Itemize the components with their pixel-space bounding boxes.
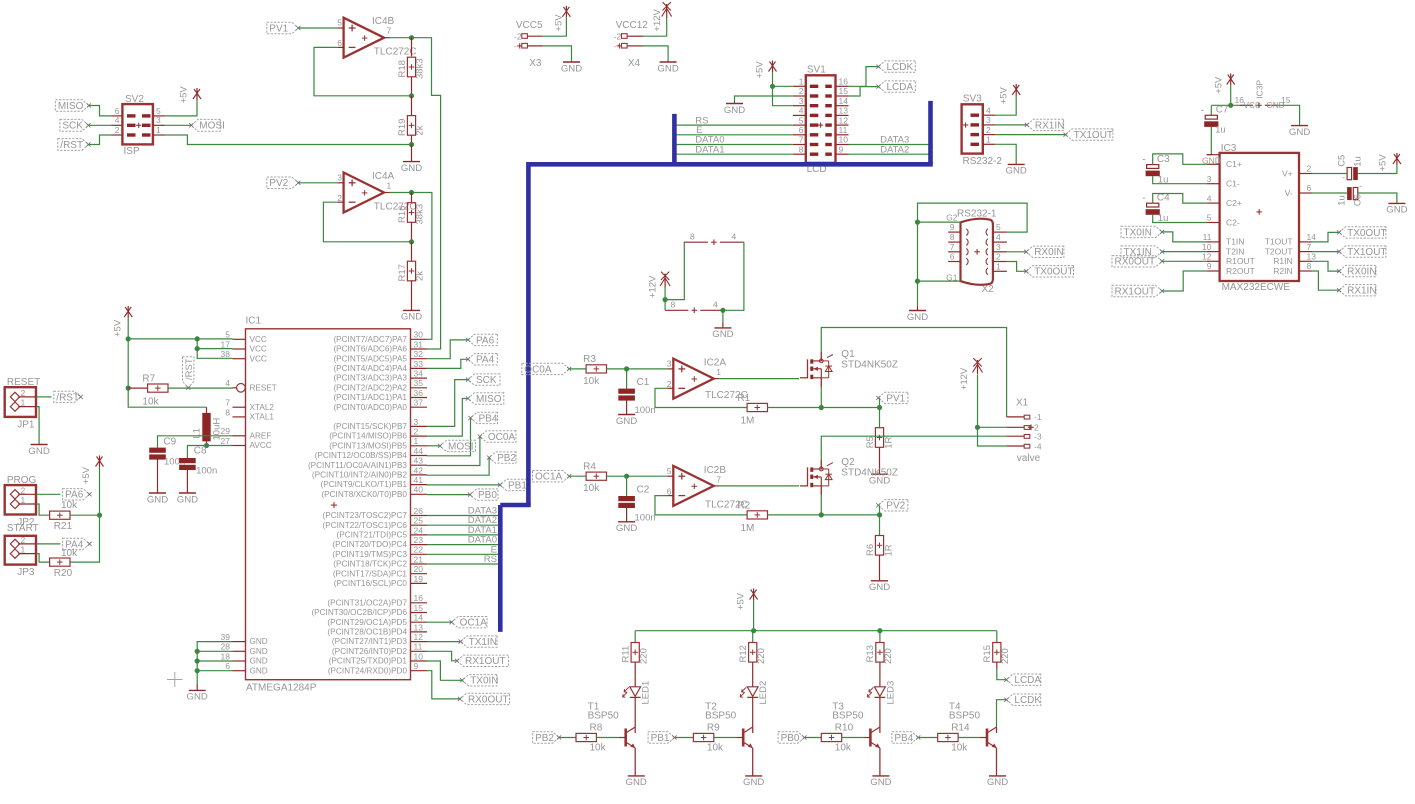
wire PB4 to R14 [918, 737, 938, 739]
svg-text:PB0: PB0 [781, 733, 800, 744]
connector SV1 LCD [793, 64, 849, 175]
net flag PA4 [466, 354, 497, 366]
svg-text:X4: X4 [628, 58, 641, 69]
wire C3 to C1- [1153, 176, 1207, 184]
svg-text:22: 22 [414, 545, 424, 555]
wire SV2 pin5 to +5V [165, 100, 198, 116]
wire JP3 pin1 to R20 [36, 554, 50, 563]
svg-text:2: 2 [986, 125, 991, 135]
svg-text:2: 2 [21, 535, 26, 545]
svg-text:(PCINT12/OC0B/SS)PB4: (PCINT12/OC0B/SS)PB4 [315, 451, 408, 460]
supply +5V at SV3 [999, 84, 1021, 104]
ground at C6 [1386, 203, 1407, 215]
supply +5V at C5 [1378, 153, 1401, 172]
svg-text:17: 17 [221, 339, 231, 349]
wire OC1A to R4 [569, 475, 586, 477]
wire R2 to PV2 node [768, 512, 880, 517]
net flag PB2 [487, 452, 516, 464]
svg-text:JP3: JP3 [17, 567, 35, 578]
wire IC2A feedback to R1 [655, 388, 747, 407]
svg-text:RX0OUT: RX0OUT [1115, 257, 1156, 268]
net flag RX1IN [1337, 285, 1377, 297]
wire R3 to IC2A +in [607, 366, 668, 371]
svg-text:-: - [1201, 105, 1204, 116]
wire +5V to C7 and IC3P VCC [1211, 85, 1240, 115]
net flag /RST at JP1 [54, 391, 83, 403]
header JP2 PROG [5, 475, 37, 528]
svg-text:5: 5 [799, 115, 804, 125]
net flag PB1 [648, 732, 677, 744]
wire +5V to L1 [128, 388, 206, 407]
svg-text:PA4: PA4 [476, 355, 495, 366]
svg-text:RX1OUT: RX1OUT [1115, 286, 1156, 297]
transistor T1 BSP50 [588, 701, 636, 748]
svg-text:12: 12 [839, 115, 849, 125]
svg-text:VCC: VCC [250, 345, 267, 354]
svg-text:GND: GND [250, 647, 268, 656]
svg-text:14: 14 [1307, 232, 1317, 242]
svg-text:5: 5 [1207, 213, 1212, 223]
wire RX1OUT to R2OUT [1162, 271, 1207, 291]
svg-text:(PCINT13/MOSI)PB5: (PCINT13/MOSI)PB5 [329, 441, 407, 450]
net flag MISO [466, 393, 504, 405]
svg-text:GND: GND [177, 494, 198, 505]
net flag OC1A input [533, 471, 572, 483]
net flag TX1OUT [1064, 129, 1114, 141]
supply +5V at SV1 [755, 61, 777, 79]
svg-text:40: 40 [414, 485, 424, 495]
svg-text:(PCINT29/OC1A)PD5: (PCINT29/OC1A)PD5 [327, 618, 407, 627]
ground below T1 [626, 776, 647, 788]
svg-text:+5V: +5V [1213, 76, 1224, 94]
wire X2 pin2 to TX0OUT flag [1007, 262, 1026, 272]
node below R19 [409, 135, 414, 147]
wire PB7 to SCK flag [427, 380, 468, 427]
net flag PA4 at JP3 [63, 538, 92, 550]
svg-text:R11: R11 [621, 646, 632, 663]
resistor R20 [50, 548, 79, 579]
svg-text:VCC: VCC [250, 335, 267, 344]
svg-text:28: 28 [221, 642, 231, 652]
svg-text:TX0IN: TX0IN [470, 676, 498, 687]
svg-text:MISO: MISO [58, 101, 84, 112]
svg-text:31: 31 [414, 339, 424, 349]
svg-text:SCK: SCK [62, 121, 83, 132]
svg-text:4: 4 [1207, 193, 1212, 203]
svg-text:C5: C5 [1337, 155, 1348, 167]
svg-text:(PCINT2/ADC2)PA2: (PCINT2/ADC2)PA2 [333, 383, 407, 392]
svg-text:4: 4 [996, 232, 1001, 242]
svg-text:GND: GND [1289, 127, 1310, 138]
svg-text:39: 39 [221, 632, 231, 642]
wire V- to C6 [1312, 192, 1347, 194]
net flag TX1IN [1121, 246, 1164, 258]
wire DATA0 to bus [427, 535, 500, 546]
svg-text:GND: GND [869, 582, 890, 593]
svg-text:7: 7 [387, 26, 392, 36]
ground below IC1 [187, 684, 208, 703]
svg-text:C3: C3 [1157, 154, 1170, 165]
wire PV1 node to flag and R5 [877, 398, 882, 428]
svg-text:T1OUT: T1OUT [1265, 237, 1293, 247]
svg-text:RX0IN: RX0IN [1034, 247, 1063, 258]
svg-text:(PCINT7/ADC7)PA7: (PCINT7/ADC7)PA7 [333, 335, 407, 344]
wire LCDK to T4 collector [997, 700, 1007, 728]
svg-text:36: 36 [414, 388, 424, 398]
origin crosshair [167, 672, 183, 687]
wire C7 to IC3 GND pin [1207, 127, 1212, 155]
resistor R12 [738, 631, 767, 687]
svg-text:18: 18 [221, 651, 231, 661]
resistor R8 [576, 722, 607, 753]
wire /RST to SV2 pin 2 [88, 135, 111, 145]
svg-text:(PCINT26/INT0)PD2: (PCINT26/INT0)PD2 [332, 647, 408, 656]
wire T4 emitter to ground [996, 748, 998, 776]
svg-text:10k: 10k [590, 743, 607, 754]
svg-text:1: 1 [21, 495, 26, 505]
svg-text:3: 3 [667, 359, 672, 369]
wire IC1 GND pins to ground [195, 642, 233, 684]
svg-text:PB1: PB1 [651, 733, 670, 744]
connector SV3 RS232-2 [962, 94, 1003, 168]
svg-text:5: 5 [337, 18, 342, 28]
wire JP2 pin2 to PA6 flag [36, 493, 60, 495]
wire DATA1 to bus [427, 525, 500, 536]
svg-text:10k: 10k [583, 376, 600, 387]
svg-text:/RST: /RST [56, 392, 79, 403]
svg-text:OC0A: OC0A [488, 432, 516, 443]
resistor R9 [693, 722, 724, 753]
connector SV2 ISP [112, 94, 165, 157]
wire OC0A to R3 [569, 368, 586, 370]
wire +12V to X1 pin2 [975, 375, 1007, 447]
svg-text:GND: GND [561, 63, 582, 74]
svg-text:2: 2 [799, 86, 804, 96]
svg-text:2: 2 [115, 125, 120, 135]
svg-text:9: 9 [414, 661, 419, 671]
svg-text:LCDA: LCDA [1014, 675, 1041, 686]
svg-text:2: 2 [414, 427, 419, 437]
svg-text:11: 11 [414, 642, 423, 652]
svg-text:10k: 10k [142, 397, 159, 408]
op-amp IC4B [337, 16, 416, 58]
svg-text:SV3: SV3 [963, 94, 982, 105]
header JP3 START [5, 523, 39, 578]
wire Q2 drain to X1 pin3 [821, 436, 1006, 469]
svg-text:+5V: +5V [1378, 154, 1389, 172]
net flag TX1OUT [1337, 246, 1387, 258]
resistor R21 [50, 500, 79, 532]
svg-text:V+: V+ [1282, 168, 1293, 178]
svg-text:R19: R19 [397, 119, 408, 136]
svg-text:(PCINT22/TOSC1)PC6: (PCINT22/TOSC1)PC6 [323, 521, 408, 530]
svg-text:4: 4 [713, 300, 718, 310]
svg-text:BSP50: BSP50 [588, 711, 620, 722]
svg-text:5: 5 [996, 222, 1001, 232]
LED LED2 [740, 681, 769, 727]
svg-text:GND: GND [626, 777, 647, 788]
wire PB0 to flag [427, 494, 470, 496]
wire R1IN to RX0IN flag [1312, 261, 1339, 271]
svg-text:3: 3 [1207, 174, 1212, 184]
svg-text:AVCC: AVCC [250, 441, 272, 450]
svg-text:R5: R5 [865, 436, 876, 448]
svg-text:XTAL1: XTAL1 [250, 413, 275, 422]
svg-text:220: 220 [756, 648, 767, 664]
wire T3 emitter to ground [879, 748, 881, 776]
wire PD3 to TX1IN flag [427, 641, 461, 643]
svg-text:9: 9 [950, 222, 955, 232]
ground below T2 [743, 776, 764, 788]
svg-text:GND: GND [1386, 205, 1407, 216]
svg-text:(PCINT0/ADC0)PA0: (PCINT0/ADC0)PA0 [333, 403, 407, 412]
svg-text:(PCINT10/INT2/AIN0)PB2: (PCINT10/INT2/AIN0)PB2 [312, 471, 408, 480]
svg-text:R4: R4 [583, 462, 596, 473]
svg-text:-1: -1 [1034, 412, 1042, 422]
svg-text:100n: 100n [635, 405, 656, 416]
svg-text:TX0IN: TX0IN [1124, 227, 1152, 238]
wire C5 to +5V [1358, 165, 1397, 174]
svg-text:8: 8 [690, 232, 695, 242]
svg-text:C4: C4 [1157, 193, 1170, 204]
svg-text:GND: GND [907, 312, 928, 323]
svg-text:+12V: +12V [959, 367, 970, 390]
svg-text:21: 21 [414, 554, 424, 564]
svg-text:DATA2: DATA2 [880, 144, 909, 155]
ground at X2 [907, 306, 928, 323]
wire T1 emitter to ground [634, 748, 636, 776]
svg-text:2: 2 [1307, 164, 1312, 174]
net flag RX1OUT [455, 655, 509, 667]
svg-text:C7: C7 [1216, 105, 1229, 116]
ground below JP1 [28, 445, 49, 457]
svg-text:1: 1 [387, 181, 392, 191]
svg-text:4: 4 [225, 378, 230, 388]
wire R9 to T2 base [714, 737, 736, 739]
svg-text:TX1OUT: TX1OUT [1347, 247, 1386, 258]
wire T2OUT to TX1OUT flag [1312, 251, 1339, 253]
wire JP1 pin1 to ground [36, 407, 39, 445]
svg-text:(PCINT9/CLKO/T1)PB1: (PCINT9/CLKO/T1)PB1 [321, 480, 408, 489]
svg-text:R7: R7 [142, 374, 155, 385]
svg-text:PB4: PB4 [479, 413, 498, 424]
svg-text:+5V: +5V [178, 86, 189, 104]
transistor Q1 STD4NK50Z [800, 349, 898, 387]
svg-text:(PCINT23/TOSC2)PC7: (PCINT23/TOSC2)PC7 [323, 511, 408, 520]
wire Q1 source to PV1 node [820, 378, 822, 408]
svg-text:PB2: PB2 [497, 453, 516, 464]
resistor R17 [397, 242, 426, 282]
svg-text:35: 35 [414, 378, 424, 388]
svg-text:2: 2 [667, 379, 672, 389]
svg-text:1: 1 [996, 261, 1001, 271]
svg-text:C2+: C2+ [1226, 198, 1242, 208]
wire R2IN to RX1IN flag [1312, 271, 1339, 290]
svg-text:1: 1 [799, 77, 804, 87]
net flag LCDA [876, 81, 915, 93]
svg-text:-4: -4 [1034, 441, 1042, 451]
net flag LCDK [1004, 694, 1041, 706]
svg-text:ISP: ISP [124, 146, 140, 157]
svg-text:-: - [514, 41, 517, 51]
svg-text:R10: R10 [835, 722, 854, 733]
wire PB1 to flag [427, 484, 500, 486]
transistor T3 BSP50 [832, 701, 880, 748]
wire X4 pin2 to +12V [643, 18, 667, 36]
svg-text:3: 3 [799, 96, 804, 106]
wire +5V to VCC pins [126, 318, 233, 359]
wire PV2 node to flag and R6 [877, 505, 882, 536]
svg-text:R6: R6 [865, 544, 876, 556]
svg-text:10k: 10k [61, 548, 78, 559]
svg-text:12: 12 [414, 632, 424, 642]
svg-text:220: 220 [883, 648, 894, 664]
wire PB2 to flag [427, 458, 489, 476]
capacitor C9 [149, 437, 185, 468]
svg-text:26: 26 [414, 506, 424, 516]
svg-text:T2IN: T2IN [1226, 246, 1244, 256]
ground at IC3P [1289, 126, 1310, 138]
svg-text:-: - [1142, 155, 1145, 166]
op-amp IC4A [337, 171, 416, 213]
wire PA4 to flag [427, 359, 468, 368]
LED LED1 [623, 681, 652, 727]
svg-text:START: START [7, 523, 39, 534]
svg-text:44: 44 [414, 446, 424, 456]
svg-text:R18: R18 [397, 60, 408, 77]
ground below R6 [869, 555, 890, 593]
capacitor C3 [1142, 154, 1170, 186]
svg-text:SV1: SV1 [807, 64, 826, 75]
wire T2 emitter to ground [752, 748, 754, 776]
svg-text:+5V: +5V [81, 466, 92, 484]
svg-text:23: 23 [414, 535, 424, 545]
wire +5V node to R20 [70, 515, 100, 562]
svg-text:11: 11 [839, 125, 848, 135]
svg-text:4: 4 [799, 106, 804, 116]
svg-text:BSP50: BSP50 [705, 711, 737, 722]
svg-text:(PCINT21/TDI)PC5: (PCINT21/TDI)PC5 [336, 531, 407, 540]
svg-text:34: 34 [414, 369, 424, 379]
svg-text:+5V: +5V [112, 319, 123, 337]
wire R15 to LCDA flag [997, 662, 1007, 680]
svg-text:GND: GND [1006, 166, 1027, 177]
net flag PA6 at JP2 [63, 489, 92, 501]
wire +5V to SV1 pins 1 and 3 [770, 72, 793, 106]
wire SV3 pin2 to TX1OUT flag [995, 134, 1065, 136]
ground below R17 [401, 281, 422, 323]
wire JP2 pin1 to R21 [36, 504, 50, 515]
svg-text:IC1: IC1 [246, 316, 262, 327]
transistor T2 BSP50 [705, 701, 753, 748]
svg-text:MOSI: MOSI [199, 121, 225, 132]
wire +5V rail [635, 600, 997, 633]
net flag SCK [466, 374, 500, 386]
svg-text:10: 10 [1202, 242, 1212, 252]
svg-text:43: 43 [414, 456, 424, 466]
svg-text:25: 25 [414, 516, 424, 526]
svg-text:LED1: LED1 [641, 681, 652, 705]
svg-text:1: 1 [156, 125, 161, 135]
resistor R2 [737, 500, 767, 534]
svg-text:20: 20 [414, 564, 424, 574]
LED LED3 [867, 681, 896, 727]
svg-text:+12V: +12V [652, 8, 663, 31]
wire PB6 to MISO flag [427, 399, 468, 437]
bus LCD [500, 101, 933, 632]
svg-text:(PCINT5/ADC5)PA5: (PCINT5/ADC5)PA5 [333, 354, 407, 363]
wire IC2B output to Q2 gate [719, 485, 799, 487]
svg-text:9: 9 [839, 144, 844, 154]
wire TX0IN to T1IN [1162, 232, 1207, 242]
svg-text:(PCINT14/MISO)PB6: (PCINT14/MISO)PB6 [329, 432, 407, 441]
resistor R5 [865, 428, 895, 449]
svg-text:BSP50: BSP50 [832, 711, 864, 722]
header JP1 RESET [5, 377, 41, 431]
svg-text:GND: GND [712, 329, 733, 340]
wire Q2 source to PV2 node [820, 486, 822, 515]
svg-text:C1+: C1+ [1226, 159, 1242, 169]
svg-text:XTAL2: XTAL2 [250, 403, 275, 412]
wire Q1 drain to X1 pin1 [821, 328, 1006, 417]
wire PB3 to OC0A flag [427, 437, 480, 466]
supply +12V at X1 [959, 358, 983, 390]
net flag MOSI [438, 440, 476, 452]
svg-text:RX0IN: RX0IN [1347, 267, 1376, 278]
svg-text:(PCINT3/ADC3)PA3: (PCINT3/ADC3)PA3 [333, 374, 407, 383]
svg-text:5: 5 [225, 330, 230, 340]
capacitor C5 [1337, 155, 1364, 183]
resistor R19 [397, 96, 426, 136]
net flag PB4 [892, 732, 920, 744]
wire AREF to C9 [158, 436, 233, 448]
resistor R7 [128, 374, 168, 408]
net flag OC0A input [522, 363, 572, 375]
svg-text:3: 3 [414, 417, 419, 427]
net flag PB1 [498, 479, 527, 491]
svg-text:8: 8 [799, 144, 804, 154]
wire V+ to C5 [1312, 173, 1347, 175]
wire E from bus to SV1 pin6 [674, 125, 792, 136]
svg-text:-: - [614, 41, 617, 51]
svg-text:2: 2 [21, 388, 26, 398]
svg-text:1: 1 [21, 398, 26, 408]
svg-text:4: 4 [986, 105, 991, 115]
svg-text:MISO: MISO [476, 394, 502, 405]
svg-text:R8: R8 [590, 722, 603, 733]
wire +12V to power pins [663, 242, 685, 310]
wire PV1 to IC4B +in [298, 27, 337, 29]
svg-text:GND: GND [616, 416, 637, 427]
svg-text:R21: R21 [54, 521, 73, 532]
svg-text:1u: 1u [1353, 156, 1364, 167]
svg-text:8: 8 [950, 232, 955, 242]
wire IC2A output to Q1 gate [719, 378, 799, 380]
svg-text:PA6: PA6 [65, 490, 84, 501]
svg-text:PB1: PB1 [508, 480, 527, 491]
wire IC4A output to node [390, 190, 415, 195]
net flag MISO [55, 100, 91, 112]
svg-text:GND: GND [870, 777, 891, 788]
wire IC4B feedback [314, 47, 412, 95]
svg-text:(PCINT6/ADC6)PA6: (PCINT6/ADC6)PA6 [333, 345, 407, 354]
wire R7 to RESET pin [168, 387, 233, 389]
wire PB1 to R9 [675, 737, 694, 739]
wire TX1IN to T2IN [1162, 251, 1207, 253]
svg-text:2: 2 [996, 252, 1001, 262]
wire X2 pin5 loop to ground [918, 203, 1028, 232]
net flag TX0IN [1121, 226, 1164, 238]
